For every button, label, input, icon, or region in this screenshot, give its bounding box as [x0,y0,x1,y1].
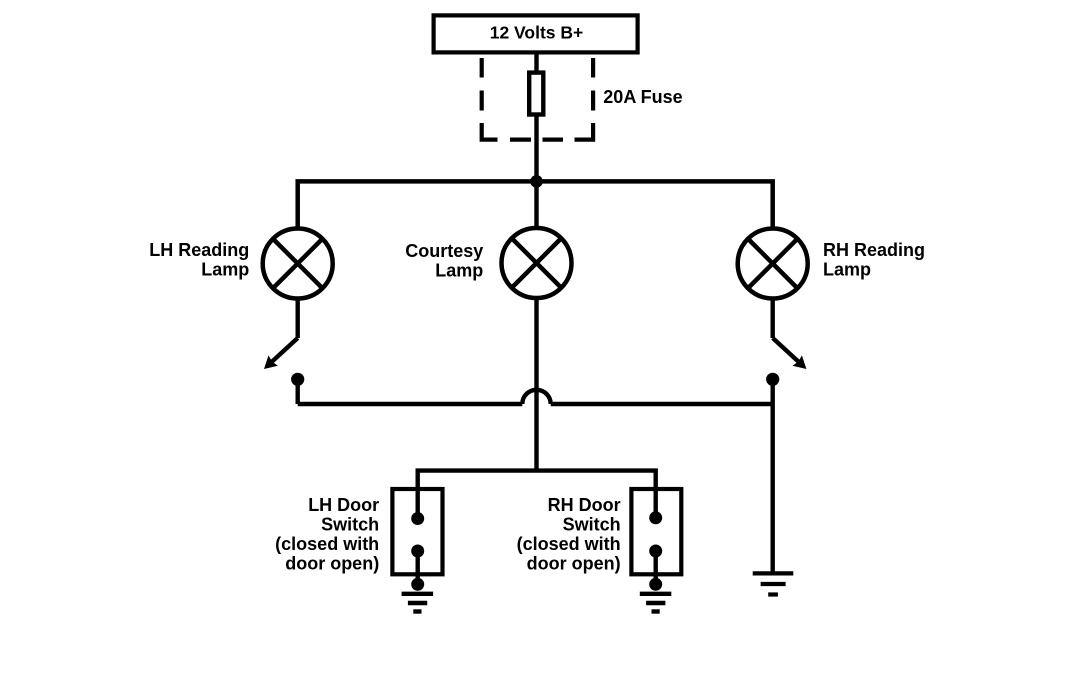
svg-text:RH Reading: RH Reading [823,240,925,260]
node RH switch output [766,373,779,386]
wire bus to courtesy lamp [534,181,538,228]
svg-text:20A Fuse: 20A Fuse [603,87,682,107]
door switch RH box [631,489,681,574]
wire LH lamp to switch [296,298,300,338]
label RH Reading Lamp [823,240,925,279]
node LH door switch ground [411,578,424,591]
svg-text:door open): door open) [285,554,379,574]
junction node on top bus [530,175,543,188]
svg-text:RH Door: RH Door [548,495,621,515]
node RH door switch ground [649,578,662,591]
ground RH door switch [640,594,672,612]
node LH door switch contact top [411,512,424,525]
node RH door switch contact bottom [649,545,662,558]
feeder wire to door switches [418,471,656,518]
svg-text:Lamp: Lamp [435,261,483,281]
top bus wire [298,181,773,227]
wire LH door switch to ground [416,551,420,584]
wire from battery box to fuse and down to top bus node [534,54,538,181]
svg-text:door open): door open) [527,554,621,574]
wire RH lamp to switch [771,298,775,338]
label 20A Fuse [603,87,682,107]
switch LH reading lamp (open, arrow) [264,338,298,369]
wire RH switch node down to chassis ground [771,381,775,573]
label LH Reading Lamp [149,240,249,280]
lower bus wire with hop over courtesy wire [298,390,773,404]
svg-text:Lamp: Lamp [201,260,249,280]
svg-text:Courtesy: Courtesy [405,241,483,261]
node LH door switch contact bottom [411,545,424,558]
lamp LH reading [263,229,333,299]
fuse F1 body [529,73,543,115]
svg-text:12 Volts B+: 12 Volts B+ [490,23,584,43]
label LH Door Switch [275,495,379,574]
switch RH reading lamp (open, arrow) [773,338,807,369]
wire RH door switch to ground [654,551,658,584]
svg-text:Switch: Switch [321,515,379,535]
svg-text:Lamp: Lamp [823,259,871,279]
node LH switch output [291,373,304,386]
svg-text:Switch: Switch [563,515,621,535]
label Courtesy Lamp [405,241,483,281]
svg-text:(closed with: (closed with [275,534,379,554]
lamp courtesy [502,228,572,298]
svg-text:LH Door: LH Door [308,495,379,515]
svg-text:(closed with: (closed with [517,534,621,554]
label RH Door Switch [517,495,621,574]
door switch LH box [392,489,442,574]
wire LH switch node to lower bus [296,381,300,404]
lamp RH reading [738,229,808,299]
ground LH door switch [402,594,434,612]
svg-text:LH Reading: LH Reading [149,240,249,260]
node RH door switch contact top [649,511,662,524]
ground chassis right [753,573,794,594]
wire courtesy lamp down to door-switch feeder [534,298,538,471]
battery box 12 Volts B+ [434,15,638,52]
fuse holder dashed outline [482,58,593,140]
